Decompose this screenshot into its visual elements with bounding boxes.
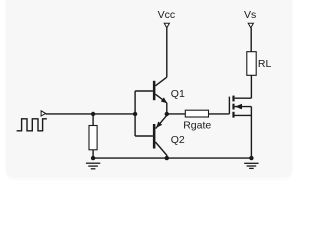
wire drain to RL — [250, 75, 252, 98]
ground right — [244, 163, 258, 168]
Vcc supply symbol — [164, 23, 169, 28]
resistor RL — [247, 52, 256, 76]
resistor pulldown — [89, 126, 97, 150]
wire base link — [135, 91, 153, 136]
Vs supply symbol — [248, 23, 253, 28]
schematic panel background — [6, 0, 293, 181]
junction node emitters — [165, 112, 169, 116]
transistor Q1 (NPN) — [153, 77, 167, 114]
junction node bases — [133, 112, 137, 116]
ground rail wire — [93, 157, 251, 159]
resistor Rgate — [185, 110, 208, 117]
wire Rgate to gate — [209, 113, 230, 115]
wire source to ground rail — [250, 107, 252, 159]
junction node pulldown rail — [91, 156, 95, 160]
svg-text:Q2: Q2 — [171, 134, 185, 146]
svg-text:Rgate: Rgate — [183, 120, 211, 132]
junction node Q2 collector rail — [165, 156, 169, 160]
svg-text:Q1: Q1 — [171, 88, 185, 100]
junction node mosfet source rail — [249, 156, 253, 160]
wire emitters to Rgate — [167, 113, 186, 115]
input buffer triangle — [41, 111, 46, 116]
svg-text:RL: RL — [258, 58, 272, 70]
junction node input/pulldown — [91, 112, 95, 116]
svg-text:Vcc: Vcc — [158, 9, 176, 21]
transistor Q2 (PNP) — [153, 115, 167, 158]
ground left — [86, 163, 100, 169]
wire pulldown to ground rail — [92, 150, 94, 158]
mosfet M1 (N-channel) — [229, 96, 251, 118]
wire Vcc to Q1 collector — [166, 28, 168, 77]
wire node to pulldown resistor — [92, 114, 94, 126]
wire input to bases — [46, 113, 136, 115]
input square wave icon — [17, 119, 47, 131]
svg-text:Vs: Vs — [244, 9, 256, 21]
wire RL to Vs — [250, 28, 252, 52]
